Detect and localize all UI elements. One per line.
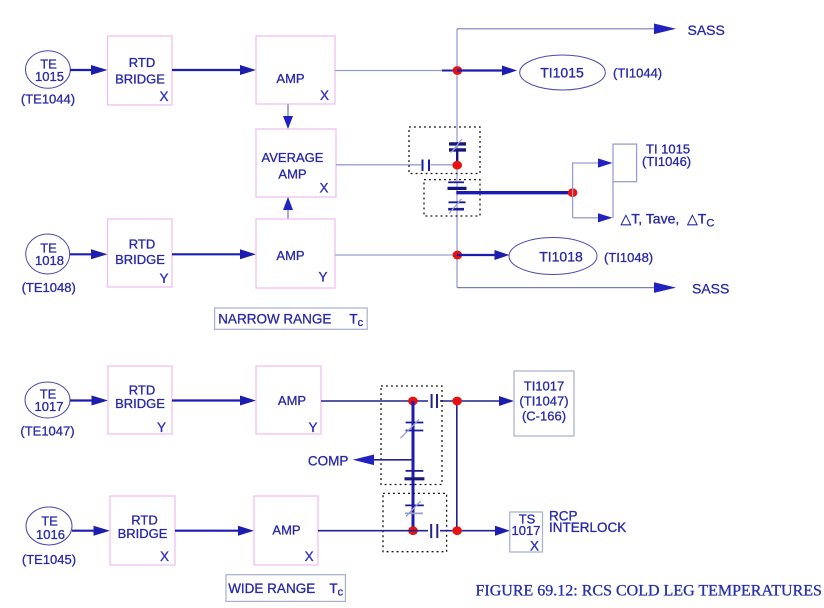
junction (457,70.5): [453, 66, 463, 75]
wire RTD bridge X to AMP X (wide): [175, 526, 254, 536]
junction (413,531): [408, 526, 418, 535]
svg-text:1017: 1017: [35, 399, 64, 414]
svg-text:X: X: [530, 539, 539, 554]
svg-text:X: X: [319, 181, 328, 196]
isolation bus vertical thick: [412, 401, 415, 531]
svg-text:X: X: [160, 549, 169, 564]
recorder TI 1015 (TI1046): [613, 144, 637, 182]
sensor TE1016: [26, 507, 72, 545]
wire AMP Y output to junction: [335, 254, 453, 256]
wire capacitor to junction 2 (bottom): [440, 530, 497, 532]
average amplifier AVERAGE AMP X: [256, 129, 336, 197]
sensor TE1017: [25, 382, 70, 418]
svg-text:TI1018: TI1018: [539, 249, 583, 265]
wire vertical bus x457 top section: [456, 29, 458, 288]
isolation capacitor (lower box, on vertical bus): [448, 182, 467, 213]
wire TE1017 to RTD bridge Y: [70, 396, 108, 406]
svg-text:BRIDGE: BRIDGE: [115, 252, 165, 267]
capacitor (series, on average amp output): [423, 160, 430, 172]
wire junction to TI1018 indicator: [457, 250, 510, 260]
svg-text:AMP: AMP: [272, 523, 300, 538]
svg-text:(TI1046): (TI1046): [642, 154, 691, 169]
svg-text:BRIDGE: BRIDGE: [115, 396, 165, 411]
isolator dotted box lower (wide range): [383, 493, 447, 551]
wire AMP X down to average amp: [283, 104, 293, 129]
wire RTD bridge Y to AMP Y (wide): [172, 396, 256, 406]
wire COMP tap: [353, 455, 413, 466]
isolation capacitor (lower pair with slash): [405, 501, 424, 517]
isolation capacitor (upper box, on vertical bus): [449, 139, 466, 161]
svg-text:AVERAGE: AVERAGE: [262, 150, 324, 165]
svg-text:BRIDGE: BRIDGE: [115, 72, 165, 87]
svg-text:SASS: SASS: [688, 22, 725, 38]
wire average amp output to isolator junction: [336, 164, 453, 166]
svg-text:COMP: COMP: [308, 454, 349, 469]
wire arrow to TI1017: [499, 396, 514, 406]
svg-text:X: X: [320, 88, 329, 103]
svg-text:TI1017: TI1017: [524, 379, 564, 394]
svg-text:1017: 1017: [512, 523, 541, 538]
amplifier AMP X: [256, 36, 335, 104]
svg-text:(TE1045): (TE1045): [22, 552, 76, 567]
junction (457,531): [452, 526, 462, 535]
amplifier AMP X (wide range): [254, 496, 318, 565]
RTD bridge Y: [108, 219, 173, 287]
wire RTD bridge Y to AMP Y: [172, 249, 256, 259]
svg-text:AMP: AMP: [276, 71, 304, 86]
wire thick output to Tavg junction: [456, 191, 570, 194]
switch TS1017 X: [510, 512, 543, 554]
svg-text:X: X: [305, 549, 314, 564]
svg-text:SASS: SASS: [692, 281, 729, 297]
svg-text:(TI1048): (TI1048): [604, 250, 653, 265]
junction (457,165): [452, 161, 462, 170]
isolator dotted box lower: [424, 180, 480, 216]
svg-text:Y: Y: [157, 420, 166, 435]
junction (412.9,401): [408, 397, 418, 406]
svg-text:RTD: RTD: [129, 55, 155, 70]
junction (457,401): [452, 397, 462, 406]
svg-text:FIGURE 69.12: RCS COLD LEG TEM: FIGURE 69.12: RCS COLD LEG TEMPERATURES: [476, 583, 822, 600]
svg-text:AMP: AMP: [278, 167, 306, 182]
svg-text:(TE1048): (TE1048): [22, 280, 76, 295]
label TI 1015 (TI1046): [642, 142, 691, 170]
wire TE1018 to RTD bridge Y: [70, 249, 108, 259]
svg-text:1015: 1015: [35, 69, 64, 84]
svg-text:BRIDGE: BRIDGE: [118, 526, 168, 541]
wire AMP Y up to average amp: [283, 197, 293, 219]
wire SASS top: [457, 22, 725, 38]
label RCP INTERLOCK: [549, 508, 626, 535]
sensor TE1015: [26, 51, 71, 88]
wire TE1015 to RTD bridge X: [70, 65, 108, 75]
wire AMP X output to junction: [335, 70, 457, 72]
svg-text:Y: Y: [159, 271, 168, 286]
svg-text:AMP: AMP: [276, 248, 304, 263]
wire AMP X to isolator junction: [318, 530, 428, 532]
isolator dotted box upper: [409, 127, 480, 174]
svg-text:(TI1047): (TI1047): [519, 394, 568, 409]
wire AMP Y to isolator junction: [321, 400, 428, 402]
capacitor (series, bottom line): [431, 524, 437, 538]
wire SASS bottom: [457, 281, 729, 297]
label WIDE RANGE Tc: [226, 575, 345, 602]
svg-text:(TE1047): (TE1047): [20, 424, 74, 439]
svg-text:TI1015: TI1015: [540, 65, 584, 81]
bracket to recorder and computed temps: [573, 158, 613, 222]
svg-text:WIDE RANGE: WIDE RANGE: [228, 581, 315, 596]
wire capacitor to junction 2: [440, 400, 500, 402]
isolator dotted box upper (wide range): [381, 386, 442, 485]
amplifier AMP Y: [256, 219, 335, 288]
indicator TI1018: [509, 238, 597, 275]
label NARROW RANGE Tc: [215, 308, 368, 329]
svg-text:(C-166): (C-166): [522, 408, 566, 423]
svg-text:INTERLOCK: INTERLOCK: [549, 520, 626, 535]
RTD bridge Y (wide range): [108, 366, 172, 435]
svg-text:(TE1044): (TE1044): [21, 92, 75, 107]
svg-text:NARROW RANGE: NARROW RANGE: [218, 312, 331, 327]
isolation capacitor (middle pair): [405, 471, 425, 479]
wire TE1016 to RTD bridge X: [72, 526, 110, 536]
indicator TI1017 (TI1047)(C-166): [514, 371, 574, 436]
wire arrow to TS1017: [495, 526, 510, 536]
sensor TE1018: [26, 234, 70, 274]
amplifier AMP Y (wide range): [256, 366, 321, 435]
svg-text:1016: 1016: [36, 527, 65, 542]
RTD bridge X (wide range): [110, 496, 175, 565]
svg-text:AMP: AMP: [278, 393, 306, 408]
svg-text:(TI1044): (TI1044): [613, 66, 662, 81]
RTD bridge X: [108, 36, 173, 105]
svg-text:RTD: RTD: [129, 237, 155, 252]
wire vertical connecting junctions x457: [456, 401, 458, 531]
svg-text:Y: Y: [308, 420, 317, 435]
indicator TI1015: [520, 55, 606, 90]
svg-text:X: X: [159, 89, 168, 104]
isolation capacitor (bars with slash, upper): [400, 420, 423, 439]
svg-text:1018: 1018: [35, 253, 64, 268]
wire RTD bridge X to AMP X: [172, 65, 256, 75]
capacitor (series, top line): [432, 394, 437, 408]
svg-text:Y: Y: [318, 270, 327, 285]
junction (572.6,192.7): [568, 188, 578, 197]
junction (457,255): [453, 251, 463, 260]
wire junction to TI1015 indicator: [457, 66, 517, 76]
